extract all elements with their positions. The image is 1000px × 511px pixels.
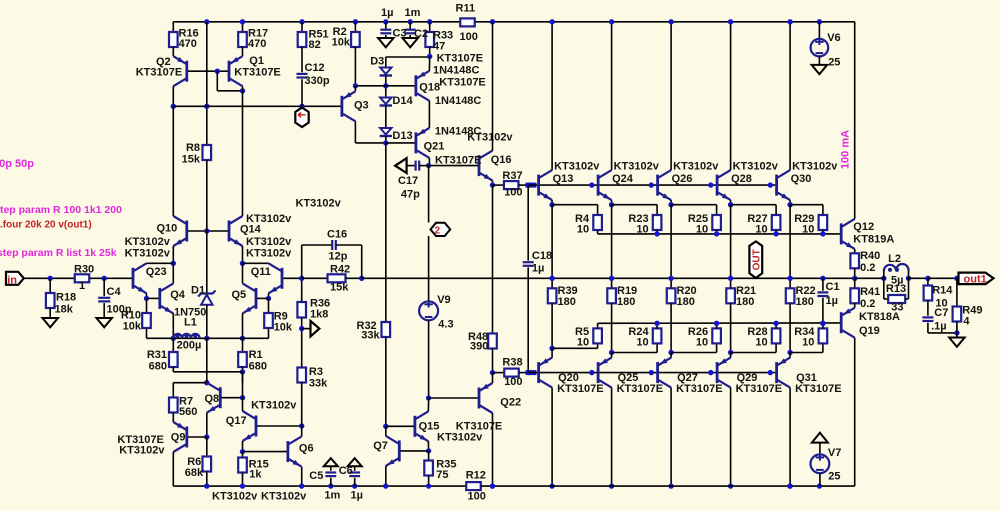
svg-text:25: 25 xyxy=(828,57,840,69)
svg-text:33: 33 xyxy=(891,302,903,314)
svg-text:20p 50p: 20p 50p xyxy=(0,158,34,170)
svg-text:KT3102v: KT3102v xyxy=(296,198,342,210)
svg-text:Q18: Q18 xyxy=(419,82,440,94)
svg-text:D3: D3 xyxy=(370,56,384,68)
svg-text:200µ: 200µ xyxy=(177,340,202,352)
svg-text:10: 10 xyxy=(755,337,767,349)
svg-text:Q17: Q17 xyxy=(226,415,247,427)
svg-text:R12: R12 xyxy=(466,470,486,482)
svg-text:D1: D1 xyxy=(191,285,205,297)
svg-text:Q13: Q13 xyxy=(553,173,574,185)
svg-text:V9: V9 xyxy=(437,294,450,306)
svg-text:180: 180 xyxy=(617,296,635,308)
svg-text:12p: 12p xyxy=(329,251,348,263)
svg-text:Q23: Q23 xyxy=(146,266,167,278)
svg-text:10: 10 xyxy=(577,337,589,349)
svg-text:10k: 10k xyxy=(332,36,351,48)
svg-text:in: in xyxy=(7,274,17,286)
svg-text:0.2: 0.2 xyxy=(860,262,875,274)
svg-text:25: 25 xyxy=(828,471,840,483)
svg-text:Q22: Q22 xyxy=(500,397,521,409)
svg-text:out1: out1 xyxy=(964,274,987,286)
svg-text:Q21: Q21 xyxy=(424,141,445,153)
svg-text:0.2: 0.2 xyxy=(860,298,875,310)
svg-text:330p: 330p xyxy=(305,75,330,87)
svg-text:15k: 15k xyxy=(330,282,349,294)
svg-text:47p: 47p xyxy=(401,189,420,201)
svg-text:100p: 100p xyxy=(107,304,132,316)
svg-text:KT3102v: KT3102v xyxy=(467,132,513,144)
svg-text:KT819A: KT819A xyxy=(853,234,894,246)
svg-text:C3: C3 xyxy=(393,28,407,40)
svg-text:R40: R40 xyxy=(860,250,880,262)
svg-text:1µ: 1µ xyxy=(351,490,363,502)
svg-text:C17: C17 xyxy=(398,175,418,187)
svg-text:390: 390 xyxy=(470,341,488,353)
svg-text:KT3102v: KT3102v xyxy=(119,445,165,457)
svg-text:D14: D14 xyxy=(392,95,413,107)
svg-text:Q6: Q6 xyxy=(299,443,314,455)
svg-text:10: 10 xyxy=(696,224,708,236)
svg-text:C2: C2 xyxy=(414,28,428,40)
svg-text:R30: R30 xyxy=(74,264,94,276)
svg-text:R18: R18 xyxy=(56,292,76,304)
svg-text:680: 680 xyxy=(249,361,267,373)
svg-text:R38: R38 xyxy=(502,357,522,369)
svg-text:D13: D13 xyxy=(392,130,412,142)
svg-text:.1µ: .1µ xyxy=(931,321,947,333)
svg-text:R37: R37 xyxy=(502,170,522,182)
svg-text:75: 75 xyxy=(436,469,448,481)
svg-text:V7: V7 xyxy=(828,447,841,459)
svg-text:Q4: Q4 xyxy=(170,289,186,301)
svg-text:KT3102v: KT3102v xyxy=(614,161,660,173)
svg-text:10k: 10k xyxy=(123,321,142,333)
svg-text:R14: R14 xyxy=(932,285,953,297)
svg-text:R1: R1 xyxy=(249,349,263,361)
svg-text:68k: 68k xyxy=(185,467,204,479)
svg-text:18k: 18k xyxy=(55,304,74,316)
svg-text:KT3102v: KT3102v xyxy=(125,236,171,248)
svg-text:R11: R11 xyxy=(456,3,476,15)
svg-text:2: 2 xyxy=(435,226,441,237)
svg-text:C16: C16 xyxy=(327,229,347,241)
svg-text:Q30: Q30 xyxy=(791,173,812,185)
svg-text:L2: L2 xyxy=(888,253,901,265)
svg-text:180: 180 xyxy=(558,296,576,308)
svg-text:Q9: Q9 xyxy=(171,432,186,444)
svg-text:47: 47 xyxy=(433,41,445,53)
svg-text:1µ: 1µ xyxy=(826,295,838,307)
svg-text:C6: C6 xyxy=(339,465,353,477)
svg-text:180: 180 xyxy=(736,296,754,308)
svg-text:KT3102v: KT3102v xyxy=(673,161,719,173)
svg-text:Q16: Q16 xyxy=(491,154,512,166)
svg-text:.four 20k 20 v(out1): .four 20k 20 v(out1) xyxy=(0,220,92,231)
svg-text:4: 4 xyxy=(963,316,970,328)
svg-text:KT3102v: KT3102v xyxy=(792,161,838,173)
svg-text:R8: R8 xyxy=(186,142,200,154)
svg-text:1k: 1k xyxy=(249,469,262,481)
svg-text:KT3102v: KT3102v xyxy=(212,491,258,503)
svg-text:10: 10 xyxy=(802,337,814,349)
svg-text:470: 470 xyxy=(248,38,266,50)
svg-text:100: 100 xyxy=(504,376,522,388)
svg-text:Q12: Q12 xyxy=(853,221,874,233)
svg-text:C4: C4 xyxy=(107,286,122,298)
svg-text:KT3107E: KT3107E xyxy=(795,383,841,395)
svg-text:KT3107E: KT3107E xyxy=(439,77,485,89)
svg-text:Q8: Q8 xyxy=(205,393,220,405)
svg-text:680: 680 xyxy=(149,361,167,373)
svg-text:KT3107E: KT3107E xyxy=(617,383,663,395)
svg-text:1N4148C: 1N4148C xyxy=(435,95,482,107)
svg-text:10: 10 xyxy=(636,337,648,349)
svg-text:1: 1 xyxy=(79,280,85,292)
svg-text:1m: 1m xyxy=(324,490,340,502)
svg-text:10: 10 xyxy=(636,224,648,236)
svg-text:R31: R31 xyxy=(147,349,167,361)
svg-text:KT3107E: KT3107E xyxy=(437,53,483,65)
svg-text:10: 10 xyxy=(577,224,589,236)
svg-text:15k: 15k xyxy=(182,154,201,166)
svg-text:R41: R41 xyxy=(860,286,880,298)
svg-text:KT3102v: KT3102v xyxy=(125,248,171,260)
svg-text:R13: R13 xyxy=(886,283,906,295)
svg-text:KT3102v: KT3102v xyxy=(437,432,483,444)
svg-text:Q11: Q11 xyxy=(251,266,271,278)
svg-text:4.3: 4.3 xyxy=(438,319,453,331)
svg-text:33k: 33k xyxy=(361,330,380,342)
svg-text:10: 10 xyxy=(696,337,708,349)
svg-text:1k8: 1k8 xyxy=(310,309,328,321)
svg-text:100: 100 xyxy=(460,31,478,43)
svg-text:Q19: Q19 xyxy=(859,325,880,337)
svg-text:C5: C5 xyxy=(309,470,323,482)
svg-text:180: 180 xyxy=(677,296,695,308)
svg-text:KT3102v: KT3102v xyxy=(733,161,779,173)
svg-text:OUT: OUT xyxy=(751,249,762,270)
svg-text:L1: L1 xyxy=(184,317,197,329)
svg-text:100: 100 xyxy=(468,491,486,503)
svg-text:Q7: Q7 xyxy=(373,440,388,452)
svg-text:Q24: Q24 xyxy=(612,173,634,185)
svg-text:10k: 10k xyxy=(274,322,293,334)
svg-text:180: 180 xyxy=(796,296,814,308)
svg-text:82: 82 xyxy=(309,39,321,51)
svg-text:.step param R 100 1k1 200: .step param R 100 1k1 200 xyxy=(0,204,122,216)
svg-text:V6: V6 xyxy=(827,32,840,44)
svg-text:KT3102v: KT3102v xyxy=(554,161,600,173)
svg-text:33k: 33k xyxy=(309,378,328,390)
svg-text:1m: 1m xyxy=(405,7,421,19)
svg-text:KT3102v: KT3102v xyxy=(246,236,292,248)
svg-text:.step param R list 1k 25k: .step param R list 1k 25k xyxy=(0,247,117,259)
svg-text:10: 10 xyxy=(755,224,767,236)
svg-text:Q26: Q26 xyxy=(672,173,693,185)
svg-text:Q14: Q14 xyxy=(240,224,262,236)
svg-text:Q28: Q28 xyxy=(731,173,752,185)
svg-text:R3: R3 xyxy=(309,366,323,378)
svg-text:KT3107E: KT3107E xyxy=(435,155,481,167)
svg-text:C7: C7 xyxy=(934,307,948,319)
svg-text:KT3102v: KT3102v xyxy=(251,400,297,412)
svg-text:100: 100 xyxy=(504,187,522,199)
svg-text:Q1: Q1 xyxy=(249,55,264,67)
svg-text:KT3102v: KT3102v xyxy=(261,491,307,503)
svg-text:R42: R42 xyxy=(330,264,350,276)
svg-text:KT3107E: KT3107E xyxy=(736,383,782,395)
svg-text:C18: C18 xyxy=(532,250,552,262)
svg-text:KT3107E: KT3107E xyxy=(557,383,603,395)
svg-text:1N4148C: 1N4148C xyxy=(433,65,480,77)
svg-text:Q5: Q5 xyxy=(232,289,247,301)
svg-text:C1: C1 xyxy=(826,281,840,293)
svg-text:C12: C12 xyxy=(305,62,325,74)
svg-text:1µ: 1µ xyxy=(532,263,544,275)
svg-text:KT3107E: KT3107E xyxy=(676,383,722,395)
svg-text:Q10: Q10 xyxy=(157,223,178,235)
svg-text:10: 10 xyxy=(802,224,814,236)
svg-text:Q3: Q3 xyxy=(354,100,369,112)
svg-text:470: 470 xyxy=(179,38,197,50)
svg-text:KT3107E: KT3107E xyxy=(234,67,280,79)
svg-text:100 mA: 100 mA xyxy=(840,130,852,169)
svg-text:KT3102v: KT3102v xyxy=(246,248,292,260)
svg-text:1µ: 1µ xyxy=(381,7,393,19)
svg-text:KT3107E: KT3107E xyxy=(136,67,182,79)
svg-text:560: 560 xyxy=(179,406,197,418)
